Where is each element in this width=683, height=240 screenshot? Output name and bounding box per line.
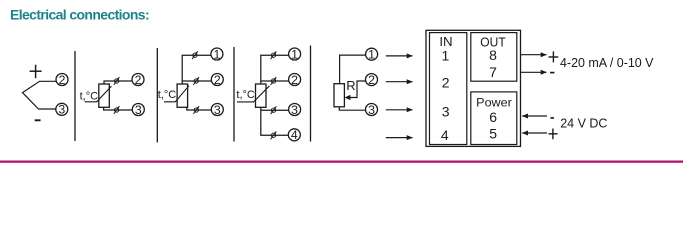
svg-text:2: 2 [442, 74, 450, 90]
wire to terminal 2 [104, 81, 132, 84]
wire branch to terminal 2 [182, 80, 211, 82]
wire to terminal 3 [339, 107, 365, 110]
lead break mark [271, 51, 277, 59]
RTD body (3-wire) [177, 84, 188, 107]
node 2 terminal circle [366, 73, 378, 87]
thermistor diagonal [85, 86, 112, 102]
svg-text:Electrical connections:: Electrical connections: [10, 7, 149, 23]
wire riser to terminal 1 [182, 55, 211, 84]
power wire to pin 5 [522, 132, 547, 134]
svg-text:2: 2 [214, 73, 221, 87]
thermistor diagonal [237, 86, 270, 102]
IN terminal group box [430, 33, 467, 145]
node 3 terminal circle [132, 103, 144, 117]
polarity label + [549, 129, 558, 140]
svg-text:t,°C: t,°C [158, 89, 177, 101]
svg-text:3: 3 [368, 103, 375, 117]
svg-text:1: 1 [213, 47, 220, 61]
node 3 terminal circle [289, 103, 301, 117]
RTD body (4-wire) [256, 84, 267, 107]
node 3 terminal circle [56, 103, 68, 117]
polarity label - [35, 119, 41, 121]
lead break mark [114, 77, 120, 85]
wire riser to terminal 1 [261, 55, 289, 84]
svg-text:24 V DC: 24 V DC [560, 117, 607, 131]
node 4 terminal circle [288, 128, 300, 142]
svg-text:t,°C: t,°C [236, 89, 255, 101]
svg-text:R: R [346, 78, 355, 93]
lead break mark [193, 77, 199, 85]
lead break mark [271, 106, 277, 114]
wiper arrowhead [344, 95, 350, 100]
wire drop to terminal 4 [261, 107, 288, 135]
thermocouple wire [23, 81, 56, 109]
wire branch to terminal 3 [261, 109, 289, 111]
svg-text:5: 5 [489, 125, 497, 141]
lead break mark [271, 77, 277, 85]
wire to terminal 3 [104, 107, 133, 110]
Power terminal group box [471, 92, 517, 145]
polarity label + [30, 65, 42, 79]
divider line 3 [233, 47, 235, 142]
input arrow to IN 2 [386, 81, 413, 83]
svg-text:Power: Power [476, 96, 512, 110]
input arrow to IN 4 [386, 137, 413, 139]
node 1 terminal circle [211, 47, 223, 61]
svg-text:3: 3 [214, 103, 221, 117]
svg-text:1: 1 [291, 47, 298, 61]
svg-text:1: 1 [442, 47, 450, 63]
divider line 4 [310, 46, 312, 142]
node 3 terminal circle [366, 103, 378, 117]
node 2 terminal circle [56, 73, 68, 87]
output wire from pin 7 [521, 71, 547, 73]
svg-text:6: 6 [489, 109, 497, 125]
svg-text:t,°C: t,°C [80, 91, 99, 103]
svg-text:4-20 mA / 0-10 V: 4-20 mA / 0-10 V [560, 56, 654, 70]
svg-text:2: 2 [59, 73, 66, 87]
thermistor diagonal [164, 86, 189, 102]
svg-text:4: 4 [441, 127, 449, 143]
svg-text:2: 2 [368, 73, 375, 87]
polarity label + [549, 51, 559, 62]
lead break mark [271, 131, 277, 139]
polarity label - [550, 72, 554, 74]
wire branch to terminal 2 [261, 80, 289, 82]
svg-text:8: 8 [489, 47, 497, 63]
svg-text:3: 3 [58, 103, 65, 117]
polarity label - [551, 117, 554, 119]
node 3 terminal circle [211, 103, 223, 117]
svg-text:4: 4 [291, 128, 298, 142]
magenta footer rule [0, 161, 683, 163]
input arrow to IN 1 [386, 55, 413, 57]
divider line 1 [74, 51, 76, 141]
node 2 terminal circle [289, 73, 301, 87]
lead break mark [192, 51, 198, 59]
OUT terminal group box [471, 33, 517, 82]
svg-text:7: 7 [489, 64, 497, 80]
RTD body (2-wire) [99, 84, 110, 107]
divider line 2 [156, 48, 158, 143]
node 1 terminal circle [366, 48, 378, 62]
wiper wire [350, 81, 366, 98]
svg-text:2: 2 [291, 73, 298, 87]
node 2 terminal circle [132, 73, 144, 87]
svg-text:2: 2 [135, 73, 142, 87]
output wire from pin 8 [521, 54, 547, 56]
svg-text:3: 3 [291, 103, 298, 117]
wire to terminal 3 [187, 107, 211, 110]
svg-text:3: 3 [135, 103, 142, 117]
input arrow to IN 3 [386, 109, 413, 111]
svg-text:3: 3 [442, 104, 450, 120]
node 2 terminal circle [211, 73, 223, 87]
node 1 terminal circle [289, 47, 301, 61]
power wire to pin 6 [522, 115, 547, 117]
svg-text:1: 1 [368, 48, 375, 62]
lead break mark [114, 106, 120, 114]
potentiometer body R [334, 84, 344, 107]
wire to terminal 1 [340, 55, 366, 84]
lead break mark [193, 106, 199, 114]
device outline U1 [426, 30, 521, 146]
